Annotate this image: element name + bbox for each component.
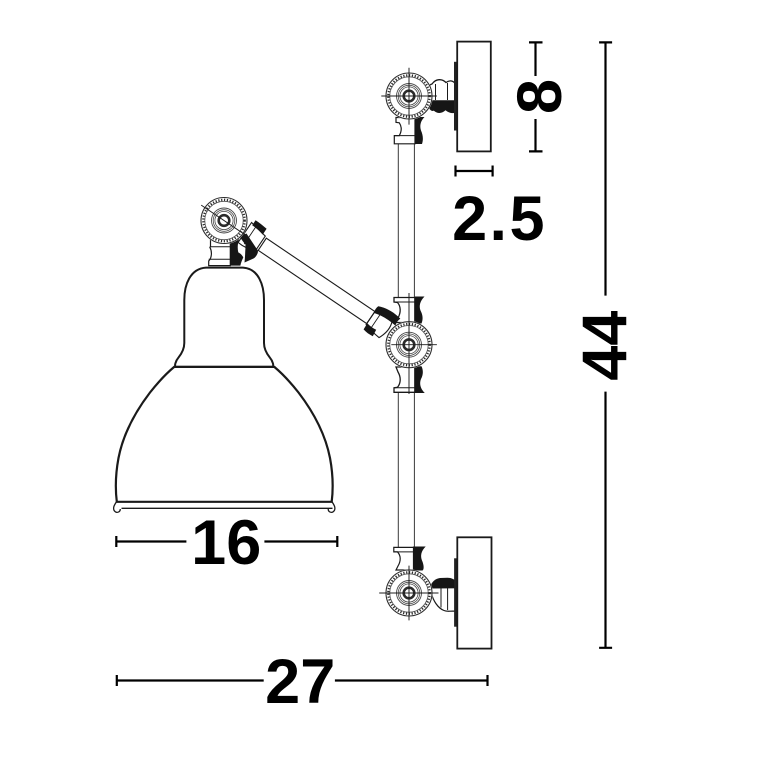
socket below shade joint — [209, 239, 244, 266]
top joint right connector to wall disc — [427, 80, 456, 114]
dimension 8 line — [529, 42, 543, 151]
shade waist line — [174, 366, 275, 368]
dark elbow upper wedge at shade joint — [252, 220, 266, 234]
svg-text:44: 44 — [571, 311, 641, 381]
top joint knob — [381, 68, 437, 125]
arm ferrule at middle joint — [366, 311, 392, 338]
svg-text:27: 27 — [265, 647, 335, 717]
arm ferrule at shade joint — [238, 223, 265, 251]
dimension 27 line — [117, 675, 488, 686]
dimension 44 line — [599, 42, 612, 647]
top wall mount plate edge — [454, 62, 457, 131]
collar below top joint — [394, 117, 424, 144]
collar above bottom joint — [394, 547, 426, 571]
middle joint knob — [385, 293, 437, 394]
svg-text:2.5: 2.5 — [452, 184, 547, 254]
top wall mount disc — [457, 42, 491, 152]
vertical pole lower segment — [398, 393, 414, 548]
articulated arm tube — [258, 238, 375, 323]
dark elbow lower wedge at middle joint — [364, 323, 377, 336]
svg-text:16: 16 — [191, 508, 261, 578]
bottom wall mount disc — [457, 537, 491, 648]
bottom wall mount plate edge — [454, 558, 457, 626]
collar above middle joint — [394, 297, 425, 324]
shade joint knob — [200, 197, 248, 245]
shade rim left hook — [114, 501, 121, 513]
dark elbow at shade joint — [240, 234, 258, 263]
collar below middle joint — [394, 366, 425, 393]
dimension 16 line — [116, 536, 337, 547]
vertical pole upper segment — [398, 144, 414, 298]
shade rim right hook — [328, 501, 335, 513]
bottom joint knob — [379, 566, 438, 621]
lamp shade — [114, 268, 335, 513]
dimension 2.5 line — [456, 166, 493, 177]
shade bottom rim line — [122, 507, 333, 509]
svg-text:8: 8 — [505, 79, 575, 114]
bottom joint right connector to wall disc — [430, 578, 457, 611]
dark elbow at middle joint — [374, 306, 401, 325]
